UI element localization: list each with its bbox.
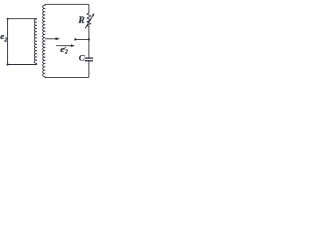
- arrowhead of arrow B: [71, 44, 75, 47]
- wire right vertical (R to C): [88, 26, 90, 57]
- inductor right winding (secondary): [43, 4, 45, 77]
- arrowhead of arrow A: [56, 37, 61, 40]
- capacitor C plates: [85, 58, 93, 61]
- node top-left corner: [7, 18, 9, 20]
- rheostat arrow through R: [85, 16, 92, 28]
- node bottom-left corner: [6, 63, 8, 65]
- wire bottom edge of left loop: [8, 64, 37, 66]
- svg-text:e2: e2: [0, 31, 7, 43]
- wire top edge of left loop: [8, 18, 37, 20]
- wire left edge of left loop: [7, 19, 9, 65]
- prime mark of e2': [64, 47, 67, 49]
- wire below capacitor: [45, 61, 89, 77]
- wire tap line to junction: [75, 38, 89, 40]
- arrowhead of rheostat arrow: [92, 13, 95, 16]
- node junction at R-C: [88, 38, 90, 40]
- wire top horizontal: [45, 4, 89, 13]
- arrow A line from secondary tap: [46, 38, 57, 40]
- node terminal dot on tap line: [74, 38, 76, 40]
- svg-text:R: R: [77, 16, 84, 26]
- inductor left winding (primary): [34, 19, 36, 65]
- arrow B line (voltage e2'): [57, 45, 71, 47]
- resistor R zigzag: [87, 13, 91, 26]
- svg-text:C: C: [79, 52, 85, 62]
